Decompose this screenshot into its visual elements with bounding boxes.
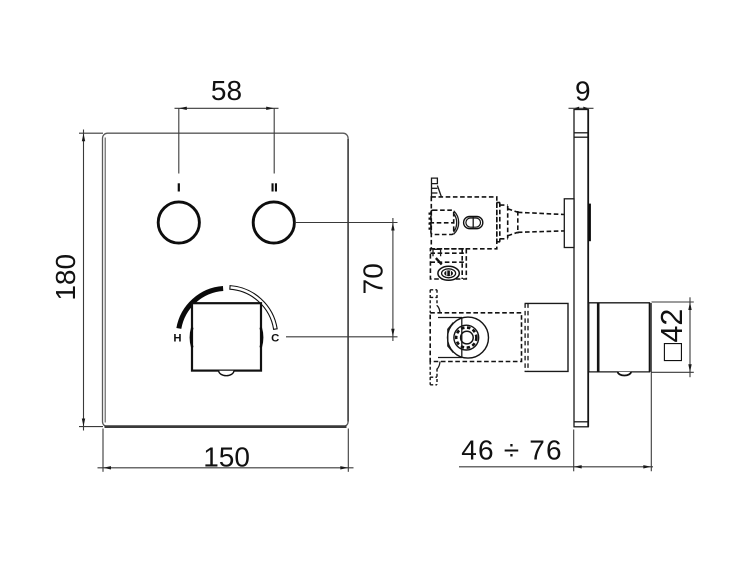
hot arc <box>179 289 223 329</box>
svg-text:180: 180 <box>50 254 81 301</box>
cartridge capsule <box>430 210 454 234</box>
knob II <box>253 202 294 243</box>
dim 70 <box>286 218 398 341</box>
cartridge box <box>525 303 568 371</box>
dim 150 <box>98 429 354 473</box>
dim 180 <box>50 130 103 431</box>
dim 9 <box>569 76 594 111</box>
wall flange <box>564 199 574 248</box>
dim 42 <box>652 297 694 377</box>
svg-text:150: 150 <box>203 441 250 472</box>
bracket tab upper <box>430 290 462 318</box>
svg-text:70: 70 <box>358 263 389 294</box>
port oval <box>464 217 483 229</box>
wall plate side view <box>574 110 588 427</box>
screw bracket <box>430 249 466 280</box>
spindle steps <box>497 203 518 242</box>
svg-text:H: H <box>173 333 181 345</box>
thermostat handle front <box>191 303 262 375</box>
svg-text:□42: □42 <box>655 309 689 361</box>
capsule cap arcs <box>454 211 459 234</box>
mounting tab top <box>432 178 442 197</box>
dim 58 <box>175 75 279 110</box>
cold arc <box>230 286 277 330</box>
thermostat body hidden <box>430 313 521 362</box>
bracket tab lower <box>430 358 462 385</box>
temperature wheel <box>448 317 489 358</box>
valve body hidden <box>431 197 497 249</box>
knob stub side <box>589 204 591 242</box>
centerline knob I <box>178 108 180 173</box>
handle button <box>618 372 631 376</box>
dim 46-76 <box>459 303 653 471</box>
svg-text:C: C <box>271 333 279 345</box>
centerline knob II <box>273 108 275 173</box>
knob I <box>158 202 199 243</box>
handle side view <box>589 303 650 372</box>
label II <box>272 183 278 191</box>
svg-text:46 ÷ 76: 46 ÷ 76 <box>461 434 563 465</box>
wall plate front view <box>103 133 349 426</box>
spindle stem <box>518 212 564 232</box>
svg-text:58: 58 <box>211 75 242 106</box>
svg-text:9: 9 <box>575 76 591 107</box>
label I <box>178 183 180 191</box>
